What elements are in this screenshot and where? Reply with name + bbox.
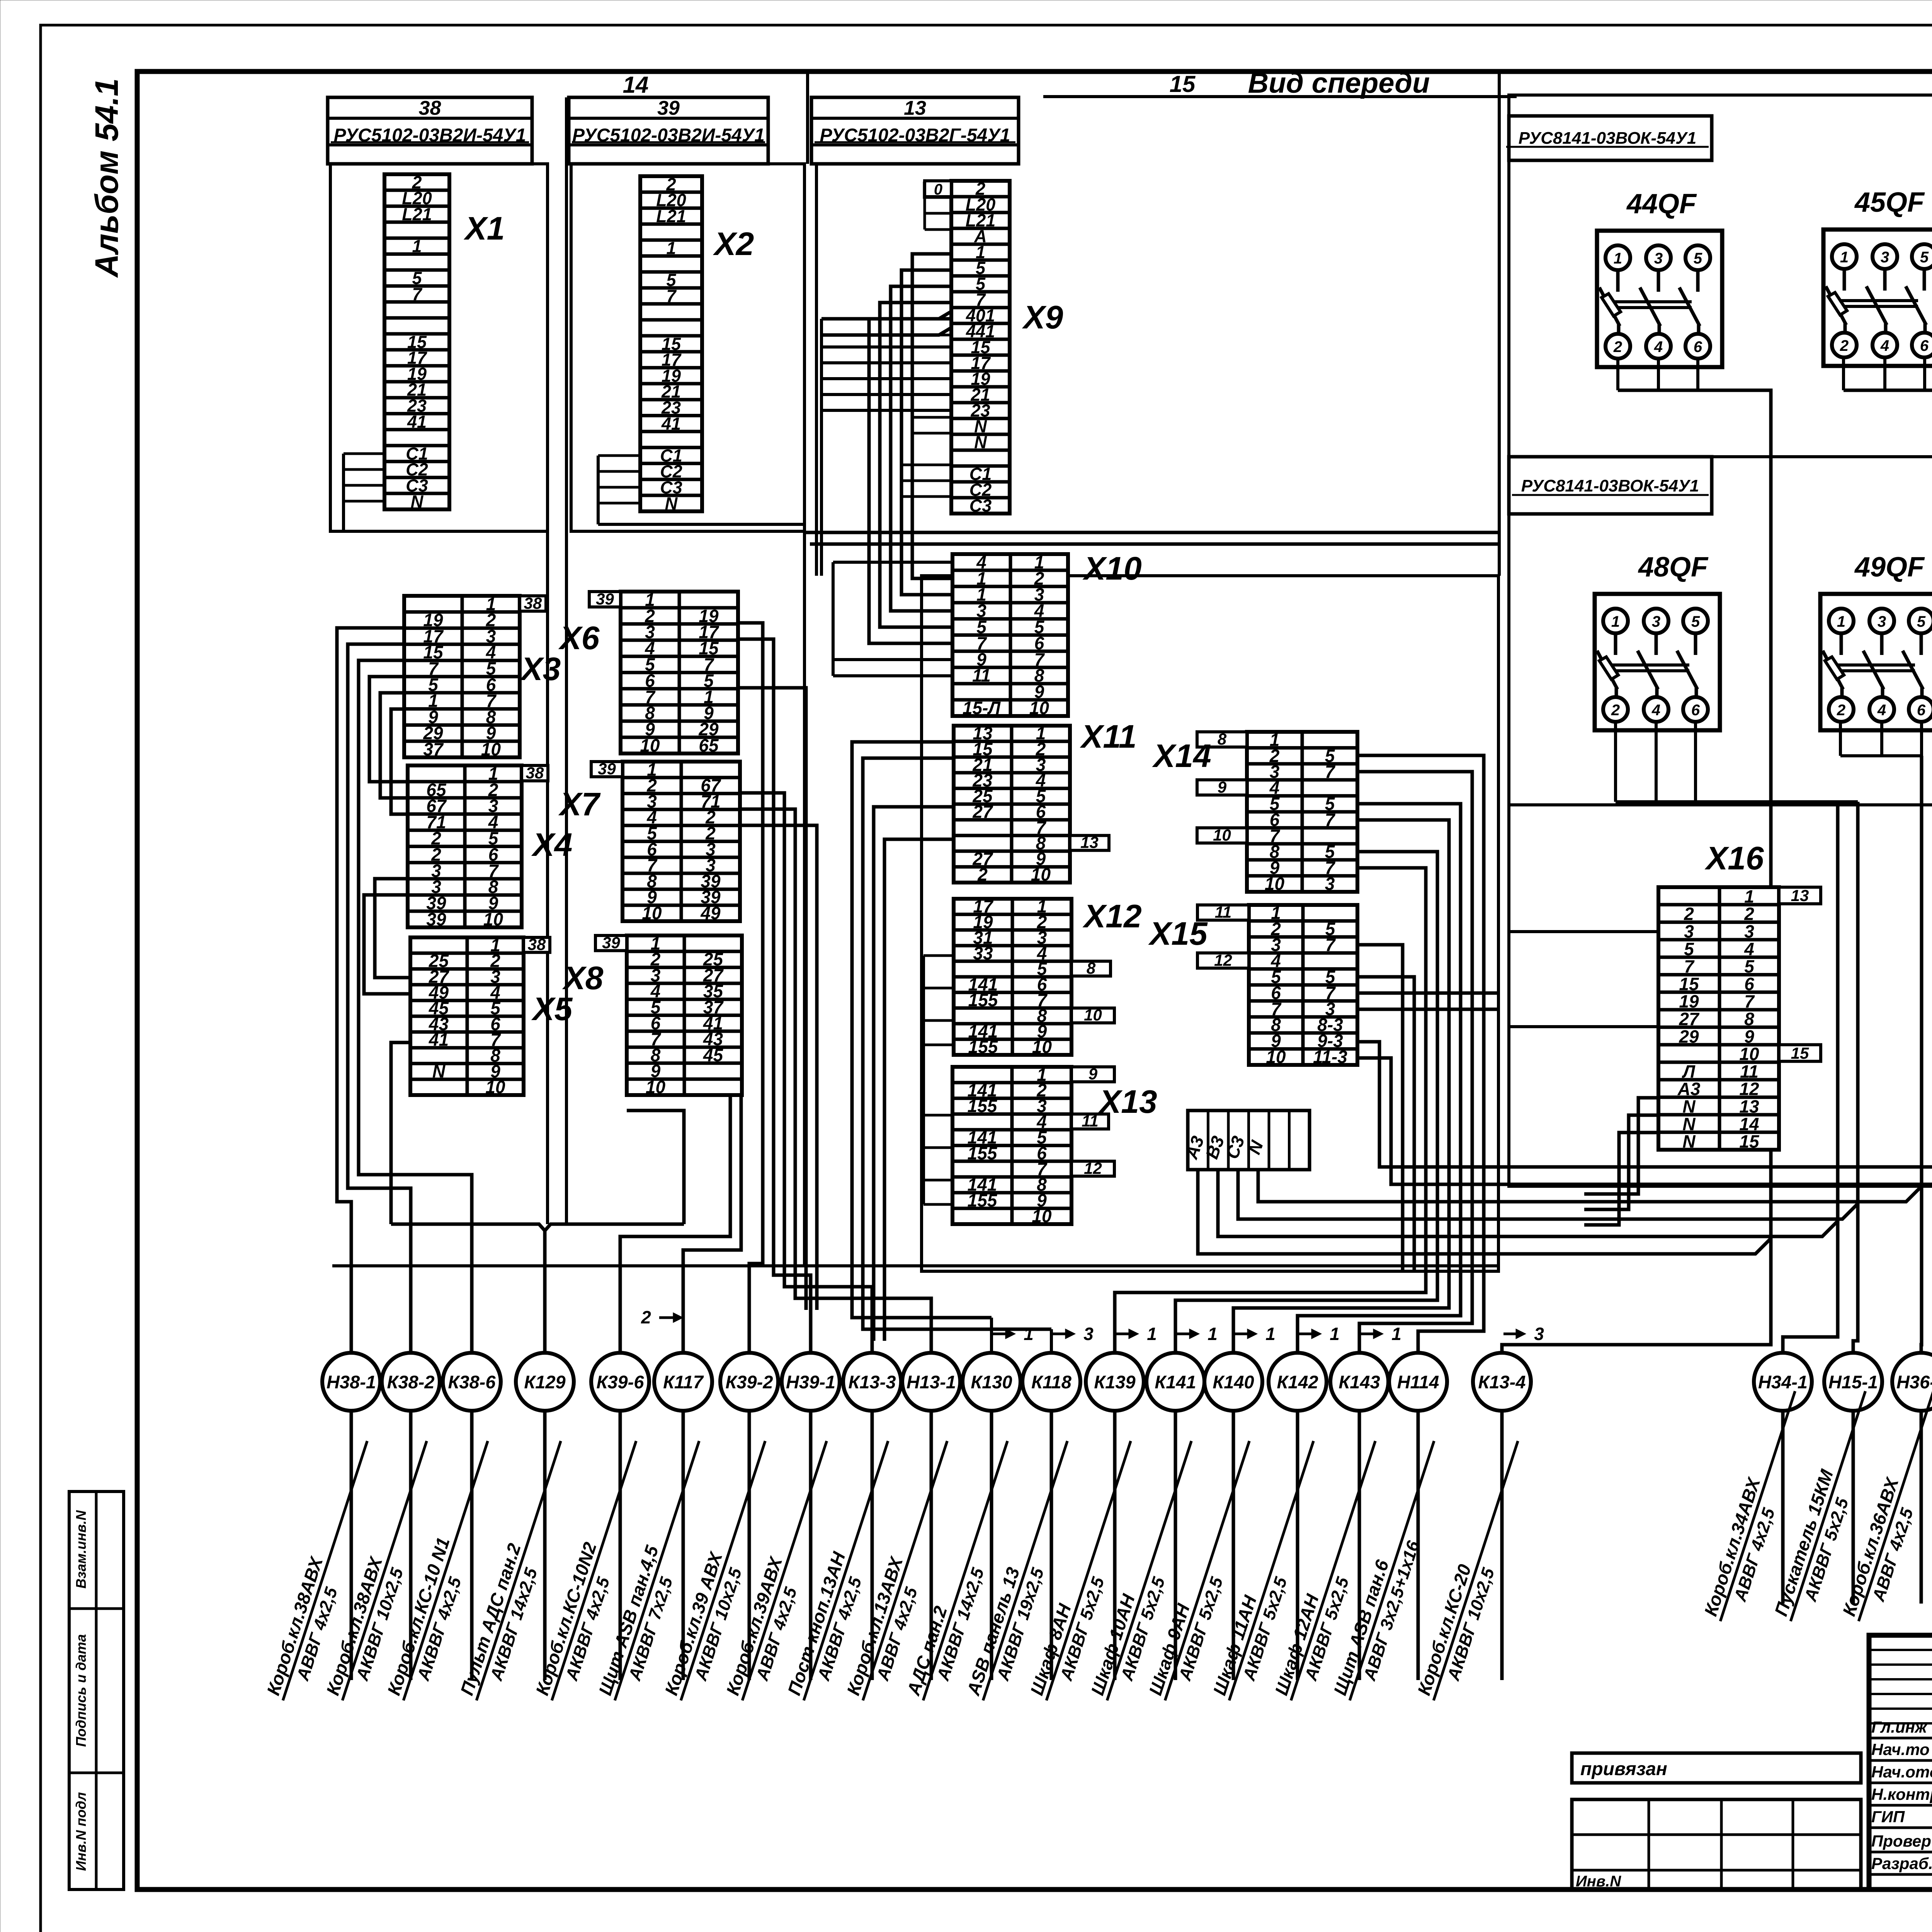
svg-text:12: 12 xyxy=(1084,1159,1102,1177)
svg-text:65: 65 xyxy=(699,735,719,755)
svg-text:К118: К118 xyxy=(1031,1372,1072,1392)
svg-text:5: 5 xyxy=(1691,613,1700,630)
svg-text:7: 7 xyxy=(1684,956,1695,976)
svg-text:13: 13 xyxy=(904,97,926,119)
svg-text:РУС8141-03ВОК-54У1: РУС8141-03ВОК-54У1 xyxy=(1521,476,1699,495)
svg-text:7: 7 xyxy=(412,284,422,304)
svg-text:К142: К142 xyxy=(1277,1372,1318,1392)
svg-text:41: 41 xyxy=(661,414,681,434)
svg-text:4: 4 xyxy=(1880,337,1889,354)
svg-text:10: 10 xyxy=(485,1077,505,1097)
svg-text:Н.контр: Н.контр xyxy=(1871,1785,1932,1803)
svg-text:X7: X7 xyxy=(558,786,601,822)
svg-text:N: N xyxy=(974,432,987,452)
svg-text:X10: X10 xyxy=(1082,550,1141,587)
svg-text:15: 15 xyxy=(1679,974,1699,994)
svg-text:4: 4 xyxy=(1654,338,1663,355)
svg-text:1: 1 xyxy=(1207,1324,1218,1344)
svg-text:1: 1 xyxy=(412,236,422,256)
svg-text:X16: X16 xyxy=(1704,840,1764,876)
svg-text:L21: L21 xyxy=(656,206,686,226)
svg-text:155: 155 xyxy=(968,1190,998,1210)
svg-text:7: 7 xyxy=(1325,810,1336,830)
svg-text:27: 27 xyxy=(1679,1009,1700,1029)
svg-text:РУС8141-03ВОК-54У1: РУС8141-03ВОК-54У1 xyxy=(1519,129,1697,148)
svg-text:К143: К143 xyxy=(1338,1372,1380,1392)
svg-text:2: 2 xyxy=(1744,904,1754,924)
svg-text:1: 1 xyxy=(1391,1324,1401,1344)
svg-text:27: 27 xyxy=(972,802,993,822)
svg-text:3: 3 xyxy=(1083,1324,1094,1344)
svg-text:38: 38 xyxy=(419,97,441,119)
svg-text:К39-6: К39-6 xyxy=(597,1372,645,1392)
svg-text:Нач.то: Нач.то xyxy=(1871,1740,1930,1759)
svg-text:33: 33 xyxy=(973,943,993,963)
svg-text:X4: X4 xyxy=(531,827,573,863)
svg-text:2: 2 xyxy=(977,864,988,884)
svg-text:X11: X11 xyxy=(1080,718,1136,755)
svg-text:9: 9 xyxy=(1088,1065,1098,1083)
svg-text:38: 38 xyxy=(528,935,546,954)
svg-text:39: 39 xyxy=(426,909,446,929)
svg-text:155: 155 xyxy=(968,1096,998,1116)
svg-text:1: 1 xyxy=(1147,1324,1157,1344)
svg-text:38: 38 xyxy=(524,594,542,612)
svg-text:49: 49 xyxy=(700,903,721,923)
svg-text:12: 12 xyxy=(1214,951,1232,969)
svg-text:41: 41 xyxy=(429,1030,449,1050)
svg-text:X15: X15 xyxy=(1148,915,1208,952)
svg-text:ГИП: ГИП xyxy=(1871,1808,1905,1826)
svg-text:48QF: 48QF xyxy=(1638,552,1709,583)
svg-text:5: 5 xyxy=(1694,250,1702,267)
svg-text:К39-2: К39-2 xyxy=(726,1372,773,1392)
svg-text:11-3: 11-3 xyxy=(1313,1047,1347,1067)
svg-text:К117: К117 xyxy=(663,1372,704,1392)
svg-text:39: 39 xyxy=(657,97,680,119)
svg-text:К13-4: К13-4 xyxy=(1478,1372,1526,1392)
svg-text:X3: X3 xyxy=(520,651,561,687)
svg-text:10: 10 xyxy=(1265,874,1285,894)
svg-text:2: 2 xyxy=(1611,702,1620,719)
svg-text:39: 39 xyxy=(596,590,614,608)
svg-text:10: 10 xyxy=(642,903,662,923)
svg-text:Подпись и дата: Подпись и дата xyxy=(73,1634,89,1747)
svg-text:К13-3: К13-3 xyxy=(849,1372,896,1392)
svg-text:6: 6 xyxy=(1917,702,1926,719)
svg-text:7: 7 xyxy=(1325,935,1336,955)
svg-text:C3: C3 xyxy=(969,496,992,515)
svg-text:45QF: 45QF xyxy=(1854,187,1925,218)
svg-text:N: N xyxy=(665,493,678,513)
svg-text:X12: X12 xyxy=(1082,898,1141,934)
svg-text:X5: X5 xyxy=(531,991,573,1027)
svg-text:10: 10 xyxy=(1084,1006,1102,1024)
svg-text:10: 10 xyxy=(1029,698,1049,718)
svg-text:11: 11 xyxy=(1082,1112,1099,1130)
svg-text:11: 11 xyxy=(972,665,991,685)
svg-text:К140: К140 xyxy=(1213,1372,1254,1392)
svg-text:Н34-1: Н34-1 xyxy=(1758,1372,1808,1392)
svg-text:7: 7 xyxy=(1325,762,1336,782)
svg-text:8: 8 xyxy=(1744,1009,1754,1029)
svg-text:6: 6 xyxy=(1694,338,1702,355)
svg-text:N: N xyxy=(1682,1114,1696,1134)
svg-text:X6: X6 xyxy=(558,620,600,656)
svg-text:10: 10 xyxy=(1739,1044,1759,1064)
svg-text:13: 13 xyxy=(1791,886,1809,905)
svg-text:44QF: 44QF xyxy=(1626,189,1697,219)
svg-text:X14: X14 xyxy=(1152,738,1211,774)
svg-text:L21: L21 xyxy=(402,204,432,224)
svg-text:39: 39 xyxy=(602,934,620,952)
svg-text:10: 10 xyxy=(1266,1047,1286,1067)
svg-text:3: 3 xyxy=(1654,250,1663,267)
svg-text:19: 19 xyxy=(1679,992,1699,1012)
svg-text:8: 8 xyxy=(1087,959,1096,977)
svg-text:14: 14 xyxy=(623,72,649,98)
svg-text:3: 3 xyxy=(1744,921,1754,941)
svg-text:13: 13 xyxy=(1080,833,1099,852)
svg-text:10: 10 xyxy=(483,909,503,929)
svg-text:Инв.N подл: Инв.N подл xyxy=(73,1792,89,1871)
svg-text:Н13-1: Н13-1 xyxy=(906,1372,956,1392)
svg-text:6: 6 xyxy=(1744,974,1754,994)
svg-text:5: 5 xyxy=(1684,939,1694,959)
svg-text:2: 2 xyxy=(1837,702,1845,719)
svg-text:К38-6: К38-6 xyxy=(448,1372,496,1392)
svg-text:X9: X9 xyxy=(1022,299,1063,335)
svg-text:1: 1 xyxy=(1837,613,1845,630)
svg-text:10: 10 xyxy=(640,735,660,755)
svg-text:Альбом 54.1: Альбом 54.1 xyxy=(88,78,125,278)
svg-text:5: 5 xyxy=(1917,613,1926,630)
svg-text:2: 2 xyxy=(641,1307,651,1327)
svg-text:41: 41 xyxy=(407,412,427,432)
svg-text:Л: Л xyxy=(1682,1061,1696,1082)
svg-text:12: 12 xyxy=(1739,1079,1759,1099)
svg-text:X2: X2 xyxy=(713,226,754,262)
svg-text:К139: К139 xyxy=(1094,1372,1135,1392)
svg-text:2: 2 xyxy=(1613,338,1622,355)
svg-text:2: 2 xyxy=(1684,904,1694,924)
svg-text:155: 155 xyxy=(968,990,998,1010)
svg-text:1: 1 xyxy=(1611,613,1620,630)
svg-text:1: 1 xyxy=(1840,249,1849,266)
svg-text:Н114: Н114 xyxy=(1397,1372,1439,1392)
svg-text:3: 3 xyxy=(1684,921,1694,941)
svg-text:9: 9 xyxy=(1744,1026,1754,1046)
svg-text:1: 1 xyxy=(1744,886,1754,906)
svg-text:X8: X8 xyxy=(562,960,604,996)
svg-text:29: 29 xyxy=(1679,1026,1699,1046)
svg-text:15: 15 xyxy=(1791,1044,1809,1062)
svg-text:Разраб.: Разраб. xyxy=(1871,1854,1932,1872)
svg-text:10: 10 xyxy=(1031,864,1051,884)
svg-text:45: 45 xyxy=(703,1045,724,1065)
svg-text:К38-2: К38-2 xyxy=(387,1372,435,1392)
svg-text:Вид спереди: Вид спереди xyxy=(1248,67,1430,99)
svg-text:8: 8 xyxy=(1218,730,1227,748)
svg-text:3: 3 xyxy=(1652,613,1660,630)
svg-text:N: N xyxy=(1682,1096,1696,1116)
svg-text:К130: К130 xyxy=(971,1372,1012,1392)
svg-text:155: 155 xyxy=(968,1037,998,1057)
svg-text:1: 1 xyxy=(666,238,676,258)
svg-text:5: 5 xyxy=(1744,956,1755,976)
svg-text:13: 13 xyxy=(1739,1096,1759,1116)
svg-text:4: 4 xyxy=(1651,702,1660,719)
svg-text:10: 10 xyxy=(481,739,501,759)
svg-text:3: 3 xyxy=(1878,613,1886,630)
svg-text:1: 1 xyxy=(1024,1324,1034,1344)
svg-text:Н15-1: Н15-1 xyxy=(1828,1372,1878,1392)
svg-text:4: 4 xyxy=(1877,702,1886,719)
svg-text:6: 6 xyxy=(1920,337,1929,354)
svg-text:11: 11 xyxy=(1740,1061,1759,1082)
svg-text:0: 0 xyxy=(934,181,942,198)
svg-text:38: 38 xyxy=(526,764,544,782)
svg-text:N: N xyxy=(1682,1131,1696,1151)
svg-text:К141: К141 xyxy=(1155,1372,1196,1392)
svg-text:Гл.инж: Гл.инж xyxy=(1871,1718,1928,1736)
svg-text:10: 10 xyxy=(1032,1037,1052,1057)
svg-text:2: 2 xyxy=(1840,337,1849,354)
svg-text:Н39-1: Н39-1 xyxy=(786,1372,835,1392)
svg-text:Инв.N: Инв.N xyxy=(1576,1873,1621,1890)
svg-text:Провер: Провер xyxy=(1871,1832,1931,1850)
svg-text:1: 1 xyxy=(1614,250,1622,267)
svg-text:6: 6 xyxy=(1691,702,1700,719)
svg-text:X1: X1 xyxy=(464,210,505,247)
svg-text:А3: А3 xyxy=(1677,1079,1701,1099)
svg-text:15: 15 xyxy=(1170,71,1196,97)
svg-text:3: 3 xyxy=(1534,1324,1544,1344)
svg-text:14: 14 xyxy=(1739,1114,1759,1134)
svg-text:10: 10 xyxy=(1032,1206,1052,1226)
svg-text:1: 1 xyxy=(1330,1324,1340,1344)
svg-text:Нач.отд: Нач.отд xyxy=(1871,1763,1932,1781)
svg-text:4: 4 xyxy=(1744,939,1754,959)
svg-text:привязан: привязан xyxy=(1580,1759,1667,1779)
svg-text:3: 3 xyxy=(1881,249,1889,266)
svg-text:N: N xyxy=(432,1061,446,1081)
svg-text:7: 7 xyxy=(666,286,677,306)
svg-text:Н38-1: Н38-1 xyxy=(327,1372,376,1392)
svg-text:3: 3 xyxy=(1325,874,1335,894)
svg-text:11: 11 xyxy=(1215,903,1232,921)
svg-text:15-Л: 15-Л xyxy=(963,698,1001,718)
svg-text:Взам.инв.N: Взам.инв.N xyxy=(73,1510,89,1589)
svg-text:49QF: 49QF xyxy=(1854,552,1925,583)
svg-text:5: 5 xyxy=(1920,249,1929,266)
svg-text:7: 7 xyxy=(1744,992,1755,1012)
svg-text:1: 1 xyxy=(1265,1324,1276,1344)
svg-text:9: 9 xyxy=(1218,778,1227,796)
svg-text:37: 37 xyxy=(423,739,444,759)
svg-text:155: 155 xyxy=(968,1143,998,1163)
svg-text:К129: К129 xyxy=(524,1372,565,1392)
svg-text:15: 15 xyxy=(1739,1131,1760,1151)
svg-text:10: 10 xyxy=(1213,826,1231,844)
svg-text:10: 10 xyxy=(646,1077,666,1097)
svg-text:X13: X13 xyxy=(1098,1083,1157,1120)
svg-text:39: 39 xyxy=(598,760,616,778)
svg-text:N: N xyxy=(411,492,424,511)
svg-text:Н36-1: Н36-1 xyxy=(1896,1372,1932,1392)
